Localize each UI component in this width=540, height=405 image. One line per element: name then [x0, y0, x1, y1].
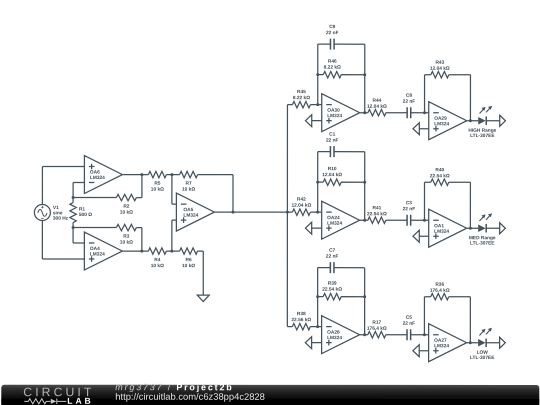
svg-text:10 kΩ: 10 kΩ	[120, 240, 133, 246]
svg-text:10 kΩ: 10 kΩ	[182, 187, 195, 193]
svg-text:C8: C8	[406, 93, 412, 99]
svg-text:OA4: OA4	[90, 246, 100, 252]
svg-text:http://circuitlab.com/c6z38pp4: http://circuitlab.com/c6z38pp4c2828	[115, 391, 265, 402]
svg-text:LM324: LM324	[327, 113, 342, 119]
svg-text:R3: R3	[123, 234, 129, 240]
svg-text:LM324: LM324	[434, 121, 449, 127]
svg-text:300 Hz: 300 Hz	[53, 216, 69, 222]
svg-text:LTL-307EE: LTL-307EE	[470, 241, 495, 247]
svg-text:500 Ω: 500 Ω	[79, 212, 92, 218]
svg-text:R4: R4	[154, 257, 160, 263]
svg-text:R43: R43	[435, 60, 444, 66]
svg-text:V1: V1	[53, 205, 59, 211]
svg-text:10 kΩ: 10 kΩ	[151, 187, 164, 193]
svg-text:R39: R39	[328, 281, 337, 287]
svg-text:OA29: OA29	[434, 116, 447, 122]
svg-text:LM324: LM324	[90, 252, 105, 258]
svg-text:R38: R38	[297, 311, 306, 317]
svg-text:C9: C9	[329, 24, 335, 30]
svg-text:R10: R10	[328, 166, 337, 172]
svg-text:R42: R42	[297, 197, 306, 203]
svg-text:22 nF: 22 nF	[403, 99, 416, 105]
svg-text:R41: R41	[372, 205, 381, 211]
svg-text:12.04 kΩ: 12.04 kΩ	[322, 172, 342, 178]
svg-text:LTL-307EE: LTL-307EE	[470, 355, 495, 361]
svg-text:12.04 kΩ: 12.04 kΩ	[430, 66, 450, 72]
svg-text:22 nF: 22 nF	[403, 321, 416, 327]
svg-text:R6: R6	[185, 257, 191, 263]
svg-text:OA28: OA28	[327, 330, 340, 336]
svg-text:LM324: LM324	[434, 229, 449, 235]
svg-text:OA1: OA1	[434, 223, 444, 229]
svg-text:LM324: LM324	[327, 335, 342, 341]
svg-text:C3: C3	[406, 200, 412, 206]
svg-text:8.22 kΩ: 8.22 kΩ	[324, 65, 341, 71]
svg-text:R44: R44	[373, 98, 382, 104]
svg-text:OA27: OA27	[434, 338, 447, 344]
svg-text:22 nF: 22 nF	[403, 206, 416, 212]
svg-text:R46: R46	[328, 59, 337, 65]
svg-text:LTL-307EE: LTL-307EE	[470, 133, 495, 139]
svg-text:OA6: OA6	[90, 170, 100, 176]
svg-text:22.54 kΩ: 22.54 kΩ	[322, 287, 342, 293]
svg-text:C1: C1	[329, 132, 335, 138]
svg-text:176.4 kΩ: 176.4 kΩ	[430, 288, 450, 294]
svg-text:R40: R40	[435, 167, 444, 173]
svg-text:12.04 kΩ: 12.04 kΩ	[367, 104, 387, 110]
svg-text:LAB: LAB	[67, 396, 93, 405]
svg-text:22.54 kΩ: 22.54 kΩ	[430, 173, 450, 179]
svg-text:HIGH Range: HIGH Range	[468, 128, 496, 134]
svg-text:10 kΩ: 10 kΩ	[182, 263, 195, 269]
svg-text:R1: R1	[79, 207, 85, 213]
svg-text:LM324: LM324	[434, 343, 449, 349]
svg-text:OA30: OA30	[327, 108, 340, 114]
svg-text:12.04 kΩ: 12.04 kΩ	[291, 203, 311, 209]
svg-text:R17: R17	[372, 320, 381, 326]
svg-text:C7: C7	[329, 248, 335, 254]
svg-text:R5: R5	[154, 181, 160, 187]
svg-text:sine: sine	[53, 210, 63, 216]
svg-text:R45: R45	[297, 89, 306, 95]
svg-text:LM324: LM324	[183, 213, 198, 219]
svg-text:LOW: LOW	[477, 350, 489, 356]
svg-text:10 kΩ: 10 kΩ	[151, 263, 164, 269]
svg-text:R36: R36	[435, 282, 444, 288]
svg-text:OA5: OA5	[183, 207, 193, 213]
svg-text:MED Range: MED Range	[469, 235, 496, 241]
svg-text:176.4 kΩ: 176.4 kΩ	[367, 326, 387, 332]
svg-text:C5: C5	[406, 315, 412, 321]
svg-text:22 nF: 22 nF	[326, 30, 339, 36]
svg-text:OA24: OA24	[327, 215, 340, 221]
svg-text:10 kΩ: 10 kΩ	[120, 210, 133, 216]
svg-text:LM324: LM324	[90, 175, 105, 181]
svg-text:22 nF: 22 nF	[326, 254, 339, 260]
svg-text:8.22 kΩ: 8.22 kΩ	[293, 95, 310, 101]
svg-text:22 nF: 22 nF	[326, 138, 339, 144]
svg-text:R2: R2	[123, 204, 129, 210]
svg-text:R7: R7	[186, 181, 192, 187]
svg-text:LM324: LM324	[327, 221, 342, 227]
svg-text:22.54 kΩ: 22.54 kΩ	[367, 211, 387, 217]
svg-text:22.56 kΩ: 22.56 kΩ	[291, 317, 311, 323]
